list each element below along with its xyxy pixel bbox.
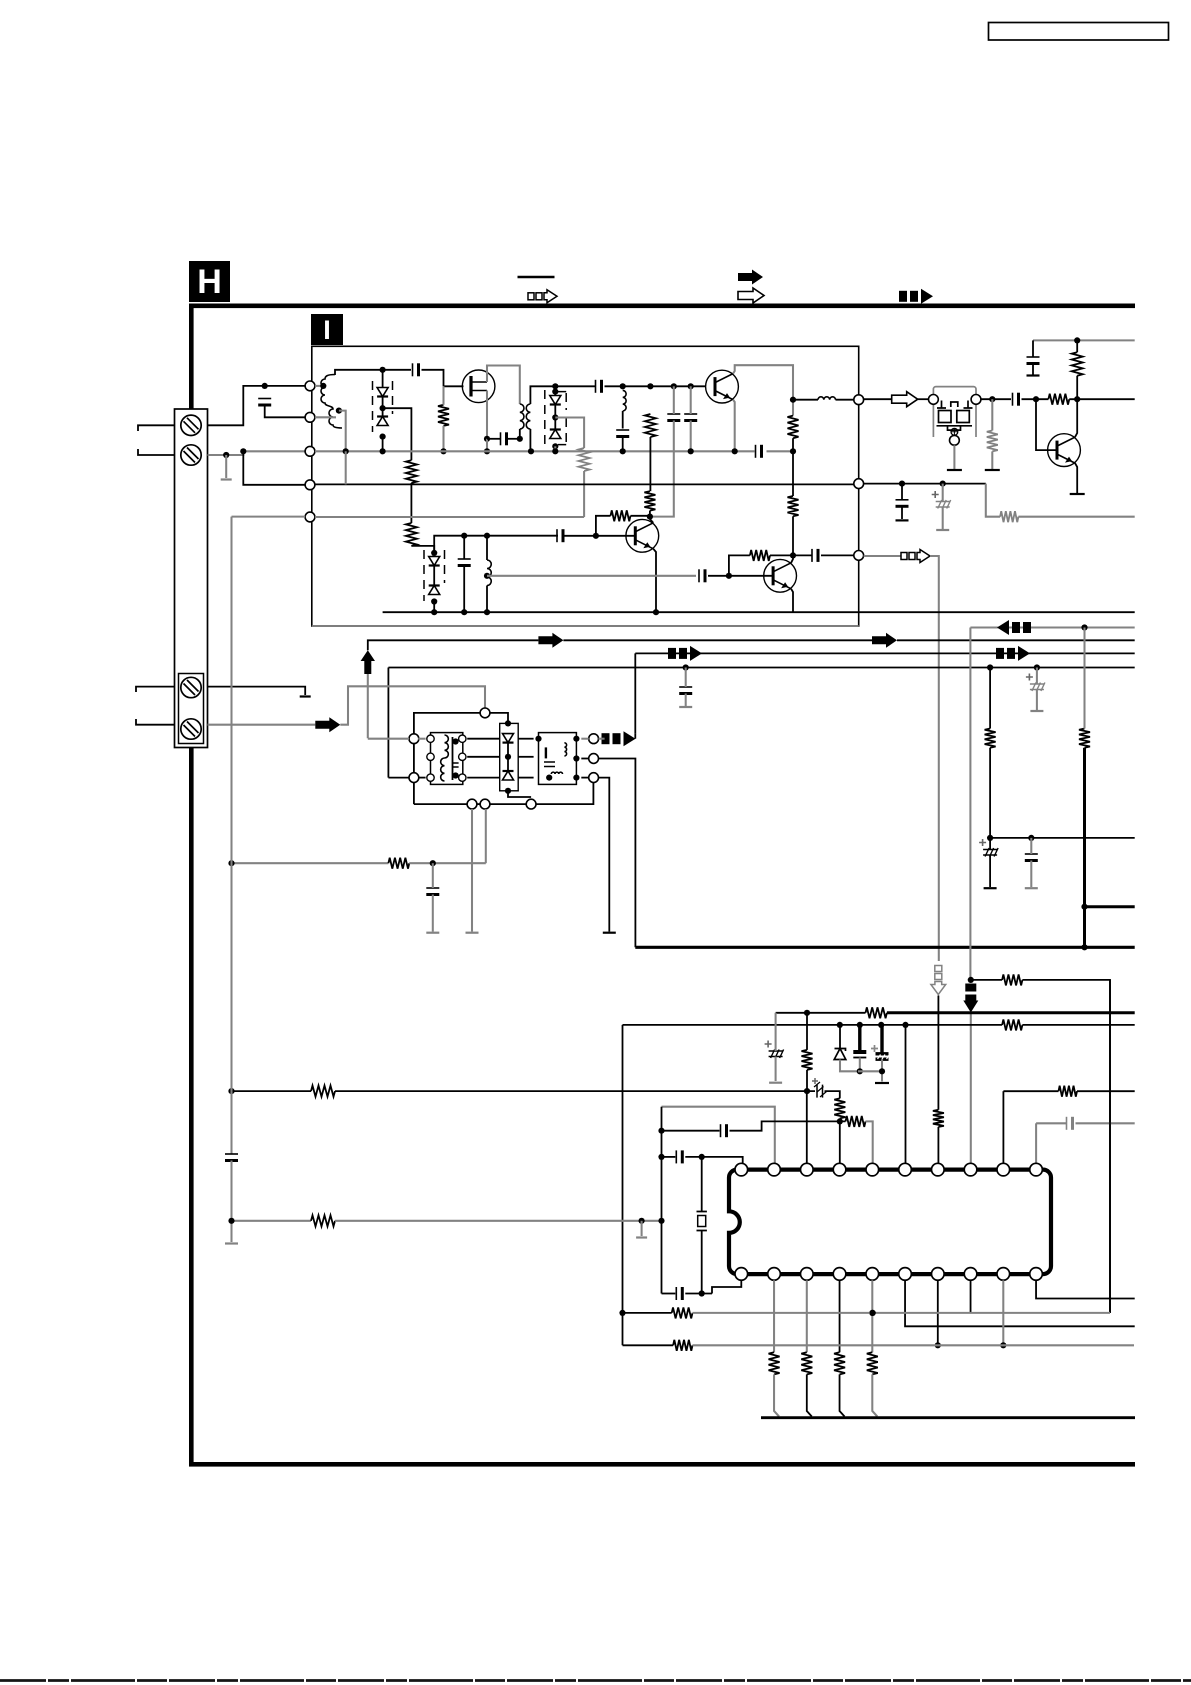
- junction Q1 source on bus: [484, 448, 490, 454]
- interior bottom row: [383, 611, 793, 613]
- capacitor C7: [616, 429, 629, 431]
- terminator under port1: [466, 932, 479, 934]
- R7 bottom lead: [792, 516, 794, 555]
- row 1071: [858, 1070, 882, 1072]
- R29 to bus: [807, 1374, 812, 1416]
- C20 end bar: [1030, 710, 1043, 712]
- wire R13 to collector node: [1069, 398, 1134, 400]
- IC U1 bottom pin 8: [964, 1268, 977, 1281]
- R23 bottom lead: [806, 1070, 808, 1091]
- pin10 bottom lead: [1036, 1280, 1135, 1298]
- junction D7 box top: [552, 389, 558, 395]
- IC U1 bottom pin 1: [735, 1268, 748, 1281]
- transistor Q5: [1048, 434, 1081, 467]
- electrolytic capacitor C22: [983, 849, 997, 851]
- row 640 from arrow: [368, 640, 539, 650]
- capacitor C1 (CN1 coupling): [258, 398, 271, 400]
- junction C8 top: [671, 383, 677, 389]
- wire xfmr row2: [467, 756, 500, 758]
- junction row863 left: [228, 860, 234, 866]
- junction CN1-2 branch: [240, 448, 246, 454]
- pin8 bottom lead: [970, 1280, 972, 1313]
- resistor R24: [311, 1086, 335, 1097]
- riser from row628: [969, 628, 971, 980]
- C18 end bar: [936, 529, 949, 531]
- C12 bottom lead: [463, 566, 465, 613]
- T2 primary bottom lead: [519, 429, 521, 439]
- pin4 top lead: [839, 1121, 841, 1163]
- junction L2 top: [620, 383, 626, 389]
- electrolytic capacitor C18: [936, 501, 950, 503]
- junction R7 to Q4 collector: [790, 552, 796, 558]
- capacitor C32 series: [225, 1153, 238, 1155]
- solid arrow A6: [315, 717, 340, 732]
- electrolytic capacitor C24: [769, 1050, 783, 1052]
- L2 bottom lead: [622, 411, 624, 429]
- ZD1 top lead: [839, 1025, 841, 1049]
- junction Q2 emitter on bus: [732, 448, 738, 454]
- lower diode bottom lead: [433, 602, 435, 613]
- middle block left port 2: [409, 773, 419, 783]
- R18 bottom lead thick: [1083, 748, 1086, 948]
- distribution box bottom: [635, 946, 1134, 949]
- transformer T2 secondary winding: [526, 404, 530, 429]
- C13 to base dot: [708, 575, 773, 577]
- junction cluster b: [857, 1022, 863, 1028]
- IC U1 bottom pin 5: [866, 1268, 879, 1281]
- port I-5: [305, 512, 315, 522]
- A6 to middle block top port: [340, 686, 485, 724]
- diode block bottom junction: [505, 788, 511, 794]
- capacitor C23: [1025, 853, 1038, 855]
- junction Q5 collector node: [1074, 396, 1080, 402]
- legend open arrow: [738, 288, 764, 303]
- row 628: [970, 626, 1134, 628]
- port I-2: [305, 412, 315, 422]
- junction row1222 end: [658, 1218, 664, 1224]
- ground terminator Q5 emitter: [1070, 493, 1085, 495]
- junction row838 c22: [1028, 835, 1034, 841]
- C23 bottom lead: [1030, 861, 1032, 888]
- legend wire sample: [518, 276, 555, 279]
- branch wire to port I-4: [243, 451, 305, 485]
- solid arrow A4 on row 640: [538, 633, 563, 648]
- resistor R34: [311, 1215, 335, 1226]
- out filter coil v: [564, 743, 566, 756]
- bias row 340: [1033, 339, 1135, 341]
- row 1222 left: [232, 1220, 312, 1222]
- ground terminator R12: [985, 469, 1000, 471]
- capacitor C6: [595, 380, 597, 393]
- row 640 to edge: [897, 639, 1135, 641]
- junction C26 row1071: [879, 1068, 885, 1074]
- legend solid arrow: [738, 270, 763, 285]
- transistor Q3: [626, 519, 659, 552]
- junction row1091 R23: [804, 1088, 810, 1094]
- filter transformer box: [431, 733, 463, 785]
- diode block top junction: [505, 720, 511, 726]
- junction CN1-2 ground stub: [223, 452, 229, 458]
- wire A1 to filter: [918, 398, 929, 400]
- T2 secondary bottom lead: [529, 429, 531, 451]
- junction cluster d: [902, 1022, 908, 1028]
- A12 to pin8: [970, 1013, 972, 1163]
- surge diode D6: [503, 770, 514, 772]
- junction lower diode top: [431, 550, 437, 556]
- left feed vertical lower: [230, 1161, 232, 1243]
- C16 bottom lead: [1032, 364, 1034, 375]
- junction pin4 row1121: [837, 1118, 843, 1124]
- C26 top lead: [880, 1025, 883, 1054]
- lead D5-D6: [507, 743, 509, 771]
- filter X1 terminal 2: [971, 395, 981, 405]
- vertical bus x1110: [1109, 980, 1111, 1313]
- diode D1: [377, 388, 388, 397]
- junction Q5 base node: [1033, 396, 1039, 402]
- D8 bottom lead: [554, 446, 556, 451]
- junction pin9 row1345: [1000, 1342, 1006, 1348]
- resistor R25: [834, 1098, 845, 1118]
- section label I: [311, 314, 343, 345]
- row 1091 left: [232, 1090, 312, 1092]
- MOSFET Q1: [462, 370, 495, 403]
- page border thick top line: [189, 304, 1135, 309]
- IC U1 top pin 8: [964, 1163, 977, 1176]
- svg-text:H: H: [197, 263, 222, 301]
- row 1157 to pin1: [685, 1157, 742, 1163]
- IC U1 top pin 2: [768, 1163, 781, 1176]
- output filter box: [539, 733, 577, 785]
- IC U1 top pin 6: [899, 1163, 912, 1176]
- C9 bottom lead: [690, 421, 692, 452]
- capacitor C5 (T2 coupling): [500, 432, 502, 445]
- junction C9 top: [688, 383, 694, 389]
- junction R5 top: [647, 383, 653, 389]
- resistor R17: [985, 729, 996, 748]
- stub wire to CN2-2: [136, 719, 175, 725]
- capacitor C28: [1066, 1117, 1068, 1130]
- row 1345 right: [693, 1344, 1135, 1346]
- junction C12 top: [461, 533, 467, 539]
- wire lower stage top row: [434, 536, 558, 553]
- row 1123 segment: [1036, 1122, 1066, 1124]
- junction D8 on bus: [552, 448, 558, 454]
- junction Q3 base node: [593, 533, 599, 539]
- riser port5: [583, 471, 585, 517]
- wire C2 to gate: [422, 370, 444, 387]
- solid down arrow A12: [965, 984, 976, 992]
- page border thick left line lower: [189, 748, 194, 1467]
- R8 to collector node: [631, 515, 650, 517]
- junction L3 tap: [484, 573, 490, 579]
- junction R18 bottom on thick row: [1081, 944, 1087, 950]
- lead D7-D8: [554, 405, 556, 430]
- electrolytic capacitor C26: [876, 1052, 889, 1055]
- junction row 399.7 tee: [790, 397, 796, 403]
- lead below arrow A11: [937, 996, 939, 1110]
- port I-1: [305, 381, 315, 391]
- C21 bottom lead: [432, 895, 434, 932]
- capacitor C17: [896, 499, 909, 501]
- open down arrow A11: [935, 966, 942, 972]
- left column vertical: [622, 1025, 624, 1345]
- wire to right port3: [581, 777, 588, 779]
- junction left feed row1221: [228, 1218, 234, 1224]
- junction D8 bottom: [552, 443, 558, 449]
- middle block left port 1: [409, 734, 419, 744]
- C16 end bar: [1027, 374, 1040, 376]
- thick stub row 906: [1085, 905, 1135, 908]
- capacitor C31: [675, 1287, 677, 1300]
- bottom row to riser: [536, 783, 593, 805]
- junction C9 on bus: [688, 448, 694, 454]
- legend block arrow: [899, 291, 907, 302]
- resistor R28: [769, 1352, 780, 1374]
- port I-c2: [854, 479, 864, 489]
- junction R14 top: [1074, 337, 1080, 343]
- crystal top lead: [701, 1157, 703, 1212]
- middle block bottom port 2: [480, 799, 490, 809]
- junction bus riser: [343, 448, 349, 454]
- capacitor C10 (bus series): [755, 445, 757, 458]
- row 1130 cap feed: [662, 1130, 720, 1132]
- dashed-signal arrow A2: [901, 553, 907, 560]
- C12 top lead: [463, 536, 465, 559]
- IC U1 top pin 10: [1030, 1163, 1043, 1176]
- wire row3 continue: [518, 777, 533, 779]
- stub wire to CN1-2: [138, 449, 175, 455]
- junction lower diode bottom: [431, 598, 437, 604]
- pin3 top lead: [806, 1091, 808, 1163]
- resistor R19: [933, 1110, 944, 1127]
- out box j2: [573, 736, 579, 742]
- capacitor C16: [1027, 356, 1040, 358]
- row 980 to corner: [1022, 980, 1110, 1313]
- port I-4: [305, 480, 315, 490]
- resistor R29: [801, 1352, 812, 1374]
- junction on CN1-1 wire: [262, 383, 268, 389]
- nc terminator: [300, 695, 311, 697]
- Q2 collector lead: [733, 365, 793, 415]
- junction L3 on bottom row: [484, 609, 490, 615]
- long row 612 to edge: [793, 611, 1135, 613]
- row 1130 to step: [730, 1121, 846, 1130]
- Q4 emitter lead: [791, 589, 793, 612]
- C26 bottom lead: [881, 1059, 883, 1081]
- row 640 continue: [563, 639, 872, 641]
- connector CN2 screw terminal 1: [181, 677, 201, 697]
- C8 bottom lead: [650, 421, 674, 517]
- row 667 start: [388, 667, 1134, 669]
- junction Q3 collector node: [647, 514, 653, 520]
- junction Q4 base node: [726, 573, 732, 579]
- ZD1 bottom lead: [840, 1060, 858, 1072]
- Q1 drain lead: [487, 366, 520, 405]
- junction cluster a: [837, 1022, 843, 1028]
- junction C20 top: [1034, 664, 1040, 670]
- xfmr internal cap: [453, 763, 459, 767]
- junction L3 top: [484, 533, 490, 539]
- wire xfmr row3: [467, 777, 500, 779]
- row 1025 right: [1022, 1024, 1134, 1026]
- IC U1 body: [729, 1170, 1051, 1275]
- wire C1 to port I-2 row: [265, 405, 306, 417]
- row out of port I-c1: [864, 398, 892, 400]
- electrolytic capacitor C20: [1030, 683, 1044, 685]
- Q3 base series cap feed: [563, 535, 635, 537]
- junction row1313 left: [619, 1310, 625, 1316]
- junction crystal top: [699, 1154, 705, 1160]
- C17 end bar: [896, 519, 909, 521]
- up arrow feed to left port1: [368, 738, 409, 740]
- transformer T2 primary winding: [520, 404, 524, 429]
- pin7 bottom lead: [937, 1280, 939, 1345]
- row 1222 right: [335, 1220, 662, 1222]
- junction R17 top row667: [987, 664, 993, 670]
- middle block bottom port 3: [526, 799, 536, 809]
- inductor L3: [487, 560, 491, 586]
- IC U1 top pin 1: [735, 1163, 748, 1176]
- transistor Q4: [764, 559, 797, 592]
- wire to L4: [793, 399, 818, 401]
- middle block bottom row: [414, 803, 467, 805]
- junction crystal bottom: [699, 1290, 705, 1296]
- port I-c3: [854, 551, 864, 561]
- resistor R7: [788, 496, 799, 516]
- C23 top lead: [1030, 838, 1032, 854]
- resistor R13: [1048, 394, 1069, 405]
- Q2 emitter lead: [733, 400, 735, 452]
- resistor R5: [645, 414, 656, 437]
- R23 top lead: [806, 1013, 808, 1050]
- xfmr center bar: [452, 737, 454, 780]
- junction C21 top: [430, 860, 436, 866]
- wire to right port2: [581, 758, 588, 760]
- wire CN1-2 to bus: [208, 451, 306, 455]
- D7 top lead: [554, 386, 556, 395]
- diode D2: [377, 415, 388, 417]
- junction row628: [1081, 624, 1087, 630]
- row 1013 thick right: [887, 1011, 1135, 1014]
- R6 bottom lead: [792, 438, 794, 451]
- R11 to collector node: [770, 554, 793, 556]
- connector CN2 screw terminal 2: [181, 719, 201, 739]
- signal arrow A1: [892, 392, 918, 407]
- middle block top port: [480, 708, 490, 718]
- row 1091 right to edge: [1077, 1090, 1135, 1092]
- wire port I-2 to L1 bottom: [315, 416, 336, 418]
- wire L1 tap to riser: [339, 411, 346, 452]
- junction thick stub: [1081, 904, 1087, 910]
- solid arrow A5 on row 640: [872, 633, 897, 648]
- pin9 bottom lead: [1002, 1280, 1004, 1345]
- pin9 lead: [1002, 1091, 1004, 1163]
- middle block right port 1: [589, 734, 599, 744]
- pin4 bottom lead: [839, 1280, 841, 1352]
- row 980: [971, 979, 1002, 981]
- grey loop row 1107: [662, 1107, 775, 1164]
- ground bus line: [761, 1416, 1135, 1419]
- diode block mid junction: [505, 754, 511, 760]
- junction D4 on bottom row: [431, 609, 437, 615]
- out box j5: [546, 775, 552, 781]
- wire C6 to Q2 base row: [605, 385, 706, 387]
- connector CN2 inner body: [179, 674, 204, 744]
- C24 top lead: [775, 1013, 777, 1051]
- xfmr pin c: [427, 774, 434, 781]
- middle block right port 3: [589, 773, 599, 783]
- wire row2 continue: [518, 756, 533, 758]
- R2 bottom lead: [442, 426, 444, 451]
- C19 top lead: [685, 668, 687, 688]
- resistor R11: [750, 550, 770, 561]
- riser port4 to bus: [345, 451, 347, 484]
- dashed enclosure D1 D2: [373, 381, 393, 432]
- wire C14 right lead: [821, 554, 854, 556]
- gate wire to Q1: [444, 385, 464, 387]
- row 1157 cap feed: [662, 1156, 676, 1158]
- dashed enclosure D7 D8: [545, 390, 566, 446]
- capacitor C13 (Q4 base): [698, 569, 700, 582]
- C21 top lead: [432, 863, 434, 888]
- lead D1-D2: [382, 397, 384, 417]
- junction diode stack bottom: [380, 434, 386, 440]
- diode D4: [429, 584, 440, 586]
- right port2 wire down: [599, 759, 636, 948]
- surge diode D5: [503, 734, 514, 743]
- IC U1 top pin 9: [997, 1163, 1010, 1176]
- title box top right: [989, 23, 1169, 41]
- capacitor C8: [667, 413, 680, 415]
- riser row667 to middle block: [387, 668, 389, 778]
- xfmr dot 2: [453, 772, 459, 778]
- C24 end bar: [769, 1082, 782, 1084]
- resistor R3: [406, 460, 417, 483]
- xfmr pin d: [459, 735, 466, 742]
- xfmr pin b: [427, 753, 434, 760]
- C19 bottom lead: [685, 694, 687, 707]
- distribution box left edge: [634, 653, 636, 733]
- inductor L2: [623, 390, 626, 411]
- block arrow A9 on box top: [996, 648, 1004, 659]
- L3 top lead: [486, 536, 488, 560]
- IC U1 top pin 7: [932, 1163, 945, 1176]
- lead R3-R4: [410, 483, 412, 523]
- R2 top lead: [442, 386, 444, 405]
- pin6 bottom lead: [905, 1280, 1135, 1326]
- Q4 collector lead: [791, 555, 793, 562]
- wire CN1-1 to port I-1: [208, 386, 306, 425]
- CN2-2 wire to arrow: [208, 724, 316, 726]
- xfmr pin f: [459, 774, 466, 781]
- resistor R22: [1002, 1019, 1022, 1030]
- block arrow A10 left: [997, 620, 1009, 635]
- out box j1: [535, 736, 541, 742]
- junction diode stack on bus: [380, 448, 386, 454]
- pin10 lead: [1035, 1123, 1037, 1163]
- R19 to pin: [937, 1127, 939, 1163]
- out box j4: [573, 775, 579, 781]
- bottom row to port3: [490, 803, 526, 805]
- wire L4 to port: [836, 399, 854, 401]
- IC U1 bottom pin 10: [1030, 1268, 1043, 1281]
- T2 secondary top lead: [530, 386, 536, 404]
- capacitor C29: [720, 1124, 722, 1137]
- pin6 top lead: [905, 1025, 907, 1163]
- wire R4 to lower diode stack: [411, 546, 434, 553]
- Q5 base wire: [1036, 399, 1057, 450]
- junction row1013: [804, 1010, 810, 1016]
